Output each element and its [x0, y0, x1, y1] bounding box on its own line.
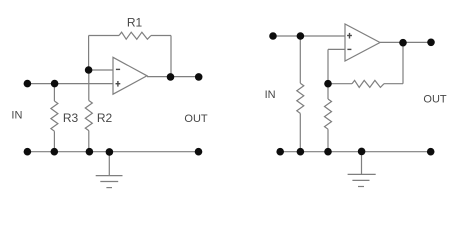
ground bar 3 left: [106, 187, 112, 189]
resistor (right lower) bottom stem: [327, 129, 329, 152]
node: right rail IN ground terminal: [276, 148, 284, 156]
ground bar 1 right: [348, 173, 376, 175]
op-amp U1 minus sign: [116, 68, 120, 70]
node: left rail R3 junction: [51, 148, 59, 156]
wire: right feedback vertical up to output node: [402, 42, 404, 83]
node: right input shunt top junction: [297, 32, 305, 40]
wire: right circuit + input wire from IN terminal to op-amp: [273, 35, 345, 37]
svg-text:R2: R2: [97, 111, 113, 125]
ground stem right: [361, 152, 363, 175]
node: left rail IN ground terminal: [24, 148, 32, 156]
svg-text:R3: R3: [63, 111, 79, 125]
resistor R3 top stem: [53, 84, 55, 101]
node: left IN terminal: [24, 80, 32, 88]
ground stem left: [108, 152, 110, 176]
node: R3 top junction: [51, 80, 59, 88]
svg-text:R1: R1: [127, 15, 143, 29]
svg-text:OUT: OUT: [184, 113, 208, 125]
ground bar 3 right: [358, 186, 364, 188]
node: right rail shunt junction: [297, 148, 305, 156]
node: right OUT terminal: [427, 39, 435, 47]
node: left rail ground tap: [106, 148, 114, 156]
resistor R2 top stem from - node crossing + wire: [88, 70, 90, 101]
node: left rail OUT ground terminal: [195, 148, 203, 156]
resistor (right lower) zigzag: [325, 99, 332, 129]
resistor R3 zigzag: [51, 101, 58, 131]
wire: left feedback loop left vertical: [88, 36, 90, 71]
resistor R3 bottom stem: [53, 131, 55, 152]
node: left rail R2 junction: [86, 148, 94, 156]
op-amp U1 plus sign: [116, 81, 121, 87]
node: right rail ground tap: [358, 148, 366, 156]
svg-text:OUT: OUT: [423, 94, 447, 106]
resistor R1 zigzag: [119, 32, 151, 39]
svg-text:IN: IN: [265, 89, 276, 101]
wire: feedback resistor to right vertical: [384, 83, 403, 85]
svg-text:IN: IN: [11, 109, 22, 121]
wire: right - input vertical down to feedback node: [327, 49, 329, 83]
wire: left feedback top-left segment to R1: [89, 35, 119, 37]
node: right feedback node junction: [324, 80, 332, 88]
resistor (right input shunt) bottom stem: [299, 113, 301, 151]
resistor (right feedback) zigzag: [352, 80, 384, 87]
wire: right circuit bottom ground rail: [280, 151, 431, 153]
resistor (right input shunt) top stem: [299, 36, 301, 83]
wire: right op-amp - input wire: [328, 48, 345, 50]
ground bar 2 right: [352, 179, 369, 181]
node: right output junction: [399, 39, 407, 47]
node: right IN terminal: [269, 32, 277, 40]
node: right rail OUT ground terminal: [427, 148, 435, 156]
resistor (right input shunt) zigzag: [297, 83, 304, 113]
node: left OUT terminal: [195, 73, 203, 81]
node: left - input junction: [85, 66, 93, 74]
op-amp U2 triangle: [345, 24, 380, 61]
resistor R2 bottom stem: [88, 131, 90, 152]
op-amp U1 triangle: [113, 57, 147, 94]
wire: left circuit - input wire from node to op-amp: [89, 69, 113, 71]
node: right rail lower resistor junction: [324, 148, 332, 156]
resistor (right lower) stem from feedback node: [327, 84, 329, 99]
ground bar 2 left: [100, 181, 118, 183]
wire: left feedback top-right segment from R1: [151, 35, 171, 37]
op-amp U2 minus sign: [347, 48, 351, 50]
wire: left feedback right vertical to output node: [170, 36, 172, 77]
op-amp U2 plus sign: [347, 33, 352, 39]
resistor R2 zigzag: [85, 101, 92, 131]
wire: feedback node to resistor: [328, 83, 352, 85]
wire: left circuit bottom ground rail: [27, 151, 198, 153]
node: left output junction: [167, 73, 175, 81]
wire: left output from op-amp apex to OUT terminal: [147, 76, 199, 78]
ground bar 1 left: [96, 175, 123, 177]
wire: left circuit + input wire from IN terminal to op-amp: [27, 83, 113, 85]
wire: right output from apex to OUT terminal: [380, 41, 431, 43]
